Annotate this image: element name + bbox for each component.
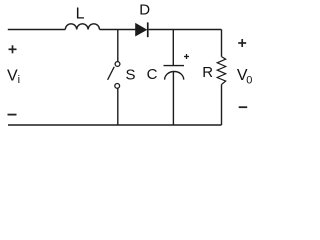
svg-text:D: D	[139, 2, 150, 19]
capacitor C (top plate and curved plate)	[164, 66, 185, 80]
wire capacitor to bottom rail	[172, 72, 174, 125]
polarity + of capacitor	[184, 54, 189, 59]
wire right vertical to resistor	[221, 30, 223, 57]
switch S (contacts and blade)	[108, 62, 120, 89]
svg-text:R: R	[202, 64, 213, 81]
wire inductor to diode (through switch node)	[100, 29, 136, 31]
resistor R	[217, 57, 226, 85]
diode D	[136, 22, 149, 37]
output + sign	[238, 39, 246, 47]
svg-text:S: S	[126, 67, 136, 84]
svg-text:Vi: Vi	[7, 68, 20, 87]
wire switch to bottom rail	[117, 88, 119, 125]
input + sign	[9, 45, 17, 53]
wire diode to right corner	[149, 29, 222, 31]
wire top rail left (input to inductor)	[8, 29, 66, 31]
svg-text:L: L	[76, 6, 85, 23]
input minus sign	[8, 114, 17, 116]
node switch junction / wire down to switch	[117, 30, 119, 62]
inductor L	[65, 24, 99, 30]
node capacitor junction / wire down to capacitor	[172, 30, 174, 66]
svg-text:C: C	[147, 66, 158, 83]
wire bottom rail	[8, 124, 222, 126]
svg-text:V0: V0	[237, 67, 252, 86]
output minus sign	[239, 106, 248, 108]
wire resistor to bottom rail	[221, 85, 223, 126]
